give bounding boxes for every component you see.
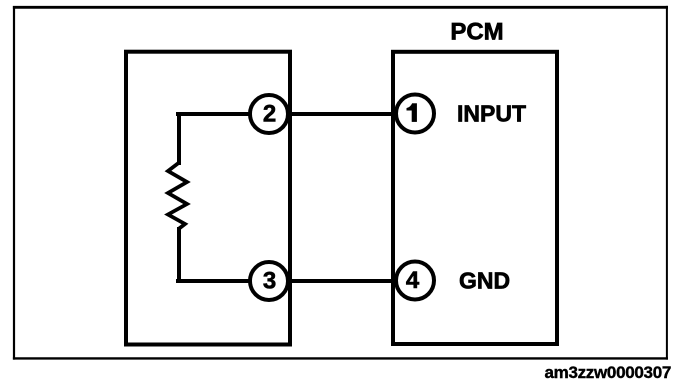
pin 1 terminal circle bbox=[396, 95, 434, 133]
component box (sensor) bbox=[126, 52, 290, 345]
pin 4 terminal circle bbox=[396, 262, 434, 300]
wire: pin 3 to pin 4 (GND line) bbox=[176, 279, 393, 283]
PCM box U1 bbox=[393, 52, 557, 344]
wire: resistor top lead (junction at pin-2 wire down to resistor) bbox=[177, 112, 181, 165]
svg-text:INPUT: INPUT bbox=[457, 101, 526, 127]
svg-text:am3zzw0000307: am3zzw0000307 bbox=[544, 363, 671, 382]
svg-text:2: 2 bbox=[263, 101, 276, 128]
pin 3 terminal circle bbox=[250, 262, 288, 300]
pin number 1 bbox=[407, 104, 417, 122]
svg-text:PCM: PCM bbox=[450, 19, 503, 46]
pin 2 terminal circle bbox=[250, 95, 288, 133]
resistor R1 bbox=[168, 163, 187, 229]
wire: resistor bottom lead down to pin-3 wire bbox=[177, 227, 181, 283]
wire: pin 2 to pin 1 (INPUT line) bbox=[176, 112, 393, 116]
svg-text:4: 4 bbox=[406, 267, 420, 294]
svg-text:GND: GND bbox=[459, 268, 510, 294]
svg-text:3: 3 bbox=[263, 268, 276, 295]
